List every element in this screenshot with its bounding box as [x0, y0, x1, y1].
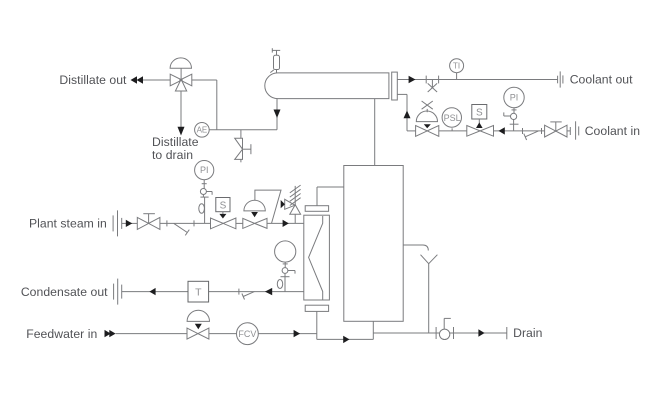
svg-text:Plant steam in: Plant steam in [29, 217, 107, 231]
svg-text:FCV: FCV [238, 329, 256, 339]
svg-text:PI: PI [510, 93, 519, 103]
svg-text:PI: PI [200, 165, 209, 175]
svg-text:Distillate: Distillate [152, 135, 199, 149]
svg-text:Feedwater in: Feedwater in [26, 327, 97, 341]
svg-text:to drain: to drain [152, 148, 193, 162]
svg-text:T: T [195, 287, 202, 299]
svg-text:S: S [476, 108, 483, 119]
svg-text:AE: AE [197, 126, 208, 135]
svg-text:Coolant in: Coolant in [585, 124, 640, 138]
svg-text:S: S [220, 200, 227, 211]
svg-text:Distillate out: Distillate out [59, 73, 127, 87]
svg-text:PSL: PSL [444, 113, 461, 123]
svg-text:Drain: Drain [513, 326, 542, 340]
svg-text:TI: TI [453, 61, 460, 70]
svg-text:Condensate out: Condensate out [21, 285, 108, 299]
svg-text:Coolant out: Coolant out [570, 73, 633, 87]
